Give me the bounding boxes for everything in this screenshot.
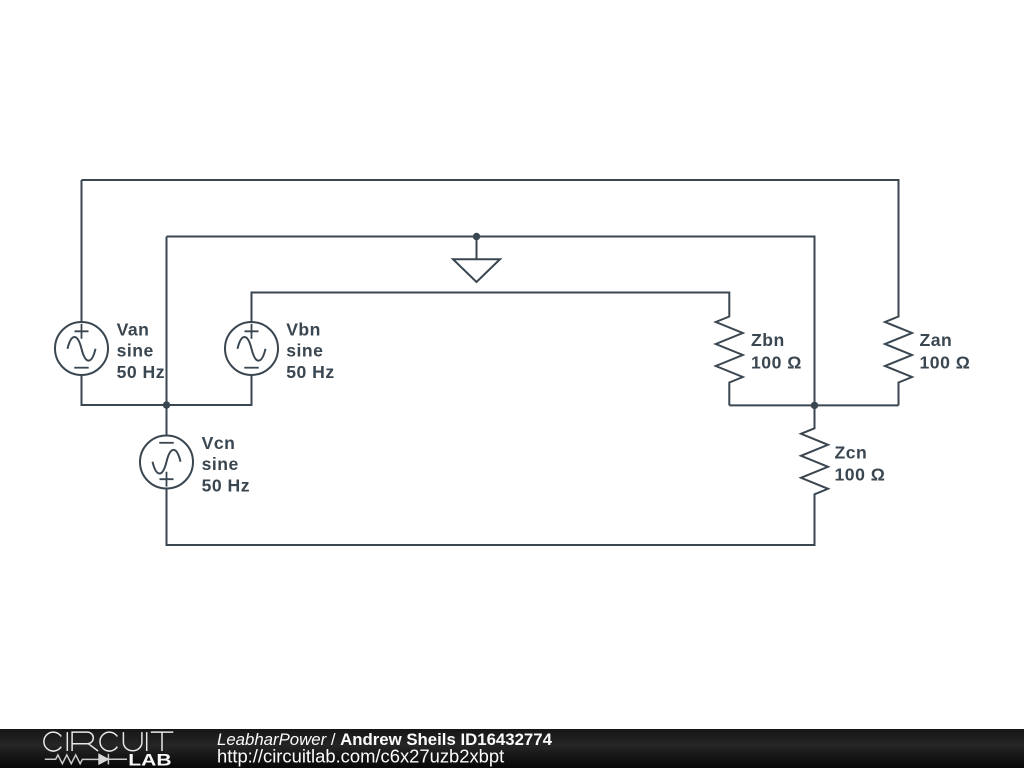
svg-text:Zcn: Zcn <box>835 442 868 462</box>
svg-text:http://circuitlab.com/c6x27uzb: http://circuitlab.com/c6x27uzb2xbpt <box>217 746 504 767</box>
svg-text:50 Hz: 50 Hz <box>202 476 250 496</box>
svg-text:100 Ω: 100 Ω <box>920 352 971 372</box>
svg-text:100 Ω: 100 Ω <box>751 352 802 372</box>
svg-text:sine: sine <box>117 341 154 361</box>
svg-text:sine: sine <box>202 454 239 474</box>
svg-text:Vbn: Vbn <box>286 319 321 339</box>
svg-text:Zbn: Zbn <box>751 330 785 350</box>
svg-text:50 Hz: 50 Hz <box>286 362 334 382</box>
svg-text:100 Ω: 100 Ω <box>835 465 886 485</box>
svg-text:sine: sine <box>286 341 323 361</box>
svg-text:Vcn: Vcn <box>202 433 236 453</box>
svg-text:Zan: Zan <box>920 330 953 350</box>
svg-text:Van: Van <box>117 319 150 339</box>
svg-text:50 Hz: 50 Hz <box>117 362 165 382</box>
